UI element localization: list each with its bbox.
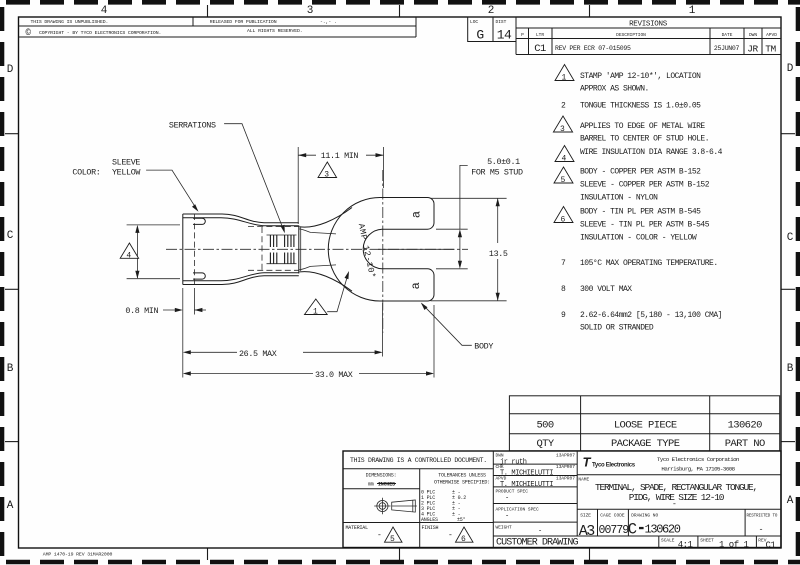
svg-text:D: D (787, 63, 794, 75)
svg-text:3: 3 (307, 5, 314, 17)
svg-text:130620: 130620 (645, 523, 681, 537)
svg-text:±5°: ±5° (457, 517, 466, 523)
svg-text:OTHERWISE SPECIFIED:: OTHERWISE SPECIFIED: (434, 480, 490, 486)
sleeve hidden dashed line (wire stop) (193, 214, 195, 285)
svg-text:PRODUCT SPEC: PRODUCT SPEC (496, 489, 529, 495)
svg-text:SLEEVE - TIN PL PER ASTM B-545: SLEEVE - TIN PL PER ASTM B-545 (580, 221, 710, 230)
svg-text:DWN: DWN (749, 32, 757, 38)
svg-text:-: - (538, 528, 542, 536)
svg-text:1: 1 (689, 5, 696, 17)
svg-text:COLOR:: COLOR: (72, 167, 100, 177)
svg-text:CUSTOMER DRAWING: CUSTOMER DRAWING (496, 538, 579, 549)
callout triangle 3 (318, 162, 337, 178)
svg-text:5: 5 (390, 535, 395, 544)
svg-text:-: - (505, 495, 509, 503)
vertical centerline (stud center) (382, 170, 384, 333)
svg-text:BODY: BODY (474, 341, 493, 351)
svg-text:APPROX AS SHOWN.: APPROX AS SHOWN. (580, 85, 649, 94)
svg-text:T. MICHIELUTTI: T. MICHIELUTTI (500, 470, 553, 478)
note triangle 4 (555, 146, 574, 162)
svg-text:3: 3 (560, 125, 565, 134)
svg-text:-: - (759, 526, 764, 535)
dim 13.5 (431, 198, 508, 300)
svg-text:13.5: 13.5 (489, 249, 508, 259)
middle column texts (496, 453, 576, 531)
dim 5.0 +-0.1 FOR M5 STUD (436, 157, 523, 269)
svg-text:INSULATION - NYLON: INSULATION - NYLON (580, 194, 658, 203)
callout triangle 1 with leader (305, 299, 328, 315)
note triangle 1 (555, 65, 574, 81)
svg-text:CAGE CODE: CAGE CODE (600, 512, 625, 518)
svg-text:YELLOW: YELLOW (112, 167, 141, 177)
svg-text:NAME: NAME (578, 477, 589, 483)
sleeve outline (183, 214, 299, 285)
svg-text:THIS DRAWING IS A CONTROLLED D: THIS DRAWING IS A CONTROLLED DOCUMENT. (350, 457, 487, 464)
neck upper curve (300, 208, 353, 228)
svg-text:DIMENSIONS:: DIMENSIONS: (366, 473, 397, 479)
svg-text:105°C MAX OPERATING TEMPERATUR: 105°C MAX OPERATING TEMPERATURE. (580, 259, 718, 268)
svg-text:WIRE INSULATION DIA RANGE 3.8-: WIRE INSULATION DIA RANGE 3.8-6.4 (580, 148, 723, 157)
svg-text:AMP 1470-19 REV 31MAR2000: AMP 1470-19 REV 31MAR2000 (43, 552, 113, 558)
REVISIONS table (516, 17, 781, 55)
dim 33.0 MAX (183, 305, 434, 380)
svg-text:1: 1 (562, 74, 567, 83)
svg-text:-.,- .: -.,- . (320, 20, 337, 25)
svg-text:8: 8 (561, 285, 566, 294)
svg-text:1: 1 (313, 308, 318, 317)
svg-text:-: - (505, 513, 509, 521)
svg-text:C: C (787, 232, 794, 244)
svg-text:TM: TM (765, 44, 776, 55)
svg-text:6: 6 (561, 216, 566, 225)
svg-text:BARREL TO CENTER OF STUD HOLE.: BARREL TO CENTER OF STUD HOLE. (580, 135, 709, 144)
svg-text:THIS DRAWING IS UNPUBLISHED.: THIS DRAWING IS UNPUBLISHED. (31, 19, 109, 25)
svg-text:9: 9 (561, 311, 566, 320)
projection symbol (374, 498, 417, 514)
svg-text:INCHES: INCHES (378, 482, 395, 488)
svg-text:COPYRIGHT - BY TYCO E: COPYRIGHT - BY TYCO ELECTRONICS CORPORAT… (39, 30, 161, 36)
svg-text:SHEET: SHEET (700, 538, 714, 544)
fork body outline (328, 198, 434, 302)
svg-text:QTY: QTY (536, 438, 554, 450)
svg-text:DESCRIPTION: DESCRIPTION (616, 32, 646, 38)
svg-text:T: T (583, 455, 592, 470)
svg-text:14: 14 (497, 28, 512, 43)
neck lower curve (300, 272, 353, 292)
svg-text:STAMP 'AMP 12-10*', LOCATION: STAMP 'AMP 12-10*', LOCATION (580, 72, 701, 81)
svg-text:C: C (7, 230, 14, 242)
LOC / DIST boxes (468, 17, 516, 43)
note triangle 5 (554, 167, 573, 183)
tolerances (421, 473, 490, 524)
dim 26.5 MAX (183, 288, 383, 378)
svg-text:D: D (7, 64, 14, 76)
svg-text:B: B (787, 363, 794, 375)
svg-text:mm: mm (368, 482, 374, 488)
svg-text:REV PER ECR 07-015095: REV PER ECR 07-015095 (555, 45, 631, 52)
svg-text:A: A (7, 500, 14, 512)
svg-text:Tyco Electronics: Tyco Electronics (592, 463, 636, 469)
svg-text:Tyco Electronics Corporation: Tyco Electronics Corporation (657, 456, 739, 463)
svg-text:MATERIAL: MATERIAL (346, 525, 369, 531)
sleeve dimple bottom (193, 273, 205, 279)
svg-text:FOR M5 STUD: FOR M5 STUD (471, 168, 523, 178)
svg-text:RELEASED FOR PUBLICATION: RELEASED FOR PUBLICATION (210, 19, 277, 25)
svg-text:REVISIONS: REVISIONS (629, 21, 668, 29)
svg-text:13APR07: 13APR07 (556, 453, 575, 459)
svg-text:DIST: DIST (496, 19, 507, 25)
note triangle 3 (553, 116, 572, 132)
svg-text:ALL RIGHTS RESERVED.: ALL RIGHTS RESERVED. (247, 28, 303, 34)
svg-text:2: 2 (561, 102, 566, 111)
svg-text:4: 4 (126, 251, 131, 260)
wire barrel end (298, 226, 300, 274)
svg-text:C1: C1 (534, 43, 546, 55)
svg-text:26.5 MAX: 26.5 MAX (239, 349, 277, 359)
svg-text:©: © (26, 28, 32, 38)
svg-text:A: A (787, 495, 794, 507)
svg-text:LOC: LOC (470, 19, 478, 25)
svg-text:SIZE: SIZE (580, 512, 591, 518)
svg-text:1 of 1: 1 of 1 (719, 540, 749, 550)
svg-text:BODY - COPPER PER ASTM B-152: BODY - COPPER PER ASTM B-152 (580, 168, 701, 177)
note triangle 6 (554, 207, 573, 223)
svg-text:C1: C1 (766, 541, 776, 551)
svg-text:5: 5 (561, 176, 566, 185)
svg-text:4: 4 (562, 155, 567, 164)
svg-text:SERRATIONS: SERRATIONS (169, 120, 216, 130)
svg-text:SLEEVE: SLEEVE (112, 158, 140, 168)
svg-text:TOLERANCES UNLESS: TOLERANCES UNLESS (438, 473, 486, 479)
svg-text:13APR07: 13APR07 (556, 464, 575, 470)
barrel seam lines (267, 234, 297, 236)
svg-text:33.0 MAX: 33.0 MAX (315, 370, 353, 380)
svg-text:BODY - TIN PL PER ASTM B-545: BODY - TIN PL PER ASTM B-545 (580, 208, 701, 217)
svg-text:SLEEVE - COPPER PER ASTM B-152: SLEEVE - COPPER PER ASTM B-152 (580, 181, 710, 190)
svg-text:APPLICATION SPEC: APPLICATION SPEC (496, 507, 540, 513)
svg-text:jr ruth: jr ruth (500, 458, 527, 466)
svg-text:11.1 MIN: 11.1 MIN (321, 151, 359, 161)
serrations (270, 235, 294, 264)
svg-text:B: B (7, 363, 14, 375)
svg-text:PART NO: PART NO (725, 438, 765, 450)
svg-text:INSULATION - COLOR - YELLOW: INSULATION - COLOR - YELLOW (580, 234, 697, 243)
right section: logo + address (583, 455, 740, 473)
svg-text:a: a (409, 282, 423, 289)
svg-text:500: 500 (536, 419, 553, 431)
svg-text:P: P (521, 32, 524, 38)
svg-text:00779: 00779 (599, 524, 630, 537)
svg-text:FINISH: FINISH (422, 525, 439, 531)
barrel-to-tongue transition fillets (299, 229, 336, 234)
svg-text:A3: A3 (579, 523, 596, 540)
svg-text:G: G (476, 28, 483, 43)
svg-text:-: - (672, 500, 677, 509)
sleeve dimple top (193, 218, 205, 224)
svg-text:LOOSE PIECE: LOOSE PIECE (614, 419, 677, 431)
svg-text:C: C (628, 520, 637, 538)
svg-text:DATE: DATE (722, 32, 733, 38)
svg-text:7: 7 (561, 259, 566, 268)
middle column rows (493, 463, 577, 465)
svg-text:ANGLES: ANGLES (421, 517, 438, 523)
svg-text:6: 6 (461, 535, 466, 544)
notes column (553, 65, 722, 333)
dim 11.1 MIN (298, 147, 383, 224)
svg-text:25JUN07: 25JUN07 (714, 45, 740, 52)
top notice box (19, 17, 417, 38)
dim wire insulation (triangle 4) (120, 225, 180, 279)
svg-text:4:1: 4:1 (678, 540, 693, 550)
svg-text:RESTRICTED TO: RESTRICTED TO (747, 514, 778, 518)
svg-text:SCALE: SCALE (661, 538, 675, 544)
svg-text:2.62-6.64mm2 [5,180 - 13,100 C: 2.62-6.64mm2 [5,180 - 13,100 CMA] (580, 311, 722, 320)
svg-text:WEIGHT: WEIGHT (496, 525, 513, 531)
svg-text:300 VOLT MAX: 300 VOLT MAX (580, 285, 632, 294)
right section (577, 474, 781, 476)
horizontal centerline (166, 248, 468, 250)
svg-text:4: 4 (101, 5, 108, 17)
dim 0.8 MIN (125, 288, 206, 316)
svg-text:LTR: LTR (536, 32, 544, 38)
svg-text:-: - (448, 531, 453, 540)
svg-text:a: a (410, 211, 424, 218)
svg-text:JR: JR (747, 44, 758, 55)
svg-text:130620: 130620 (728, 419, 763, 431)
svg-text:APPLIES TO EDGE OF METAL WIRE: APPLIES TO EDGE OF METAL WIRE (580, 122, 705, 131)
svg-text:13APR07: 13APR07 (556, 476, 575, 482)
svg-text:0.8 MIN: 0.8 MIN (125, 306, 158, 316)
svg-text:5.0±0.1: 5.0±0.1 (487, 157, 520, 167)
svg-text:DRAWING NO: DRAWING NO (631, 512, 658, 518)
svg-text:APVD: APVD (766, 32, 777, 38)
svg-text:2: 2 (488, 5, 495, 17)
svg-text:TONGUE THICKNESS IS 1.0±0.05: TONGUE THICKNESS IS 1.0±0.05 (580, 102, 701, 111)
svg-text:SOLID OR STRANDED: SOLID OR STRANDED (580, 324, 654, 333)
svg-text:T. MICHIELUTTI: T. MICHIELUTTI (500, 481, 553, 489)
wire barrel hidden lines (248, 227, 299, 271)
svg-text:Harrisburg, PA 17105-3608: Harrisburg, PA 17105-3608 (661, 466, 735, 473)
svg-text:3: 3 (324, 171, 329, 180)
left section lines (343, 468, 493, 470)
svg-text:PACKAGE TYPE: PACKAGE TYPE (611, 438, 680, 450)
svg-text:-: - (377, 531, 382, 540)
